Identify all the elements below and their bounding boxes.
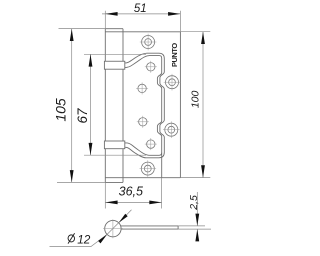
- dimension 2,5 arrows: [195, 214, 199, 242]
- dimension 36,5 line: [105, 201, 161, 203]
- svg-text:67: 67: [75, 108, 90, 124]
- small hole S2: [138, 84, 146, 92]
- hinge barrel column: [105, 29, 123, 183]
- dimension 51 line: [102, 13, 180, 15]
- countersunk hole H2: [166, 76, 179, 89]
- barrel bottom cap: [105, 181, 123, 183]
- extension lines 67: [84, 54, 146, 155]
- extension lines top (51): [105, 11, 180, 32]
- extension lines 36,5: [105, 178, 161, 209]
- dimension 105 arrows: [70, 29, 74, 183]
- small hole S1: [147, 63, 155, 71]
- countersunk hole H3: [165, 123, 178, 136]
- dimension 51 arrows: [105, 12, 180, 16]
- svg-text:12: 12: [77, 232, 91, 246]
- knuckle K2: [104, 141, 124, 149]
- side view barrel circle: [105, 220, 121, 236]
- diameter 12 leader line: [50, 210, 132, 247]
- knuckle K1: [104, 61, 124, 69]
- barrel top cap: [105, 28, 123, 30]
- small hole S3: [139, 118, 147, 126]
- svg-text:51: 51: [134, 3, 147, 15]
- leaf plate outline: [105, 32, 180, 178]
- extension line 105 top: [59, 28, 106, 30]
- svg-text:105: 105: [52, 98, 68, 122]
- extension line 105 bottom: [57, 181, 105, 183]
- side view circle crosshair: [103, 219, 123, 238]
- side view plate: [121, 226, 179, 229]
- leaf contour inner bottom branch: [125, 143, 162, 155]
- svg-text:2,5: 2,5: [188, 195, 200, 211]
- diameter 12 text: [67, 232, 90, 246]
- dimension 36,5 arrows: [105, 201, 161, 205]
- brand text PUNTO: [170, 43, 179, 67]
- diameter 12 leader arrows: [98, 214, 128, 244]
- leaf contour outer line: [125, 53, 165, 158]
- svg-text:100: 100: [190, 90, 202, 108]
- leaf contour inner line: [125, 56, 162, 178]
- dimension 100 arrows: [201, 32, 205, 178]
- extension lines 2,5: [178, 226, 211, 229]
- dimension 67 arrows: [89, 54, 93, 155]
- extension lines 100: [180, 32, 210, 178]
- countersunk hole H1: [142, 36, 155, 49]
- dimension 105 line: [71, 29, 73, 183]
- dimension 100 line: [202, 32, 204, 178]
- dimension 67 line: [90, 54, 92, 155]
- small hole S4: [147, 140, 155, 148]
- svg-text:PUNTO: PUNTO: [170, 43, 179, 67]
- countersunk hole H4: [141, 162, 154, 175]
- dimension 2,5 line: [196, 192, 198, 241]
- svg-text:36,5: 36,5: [119, 185, 143, 199]
